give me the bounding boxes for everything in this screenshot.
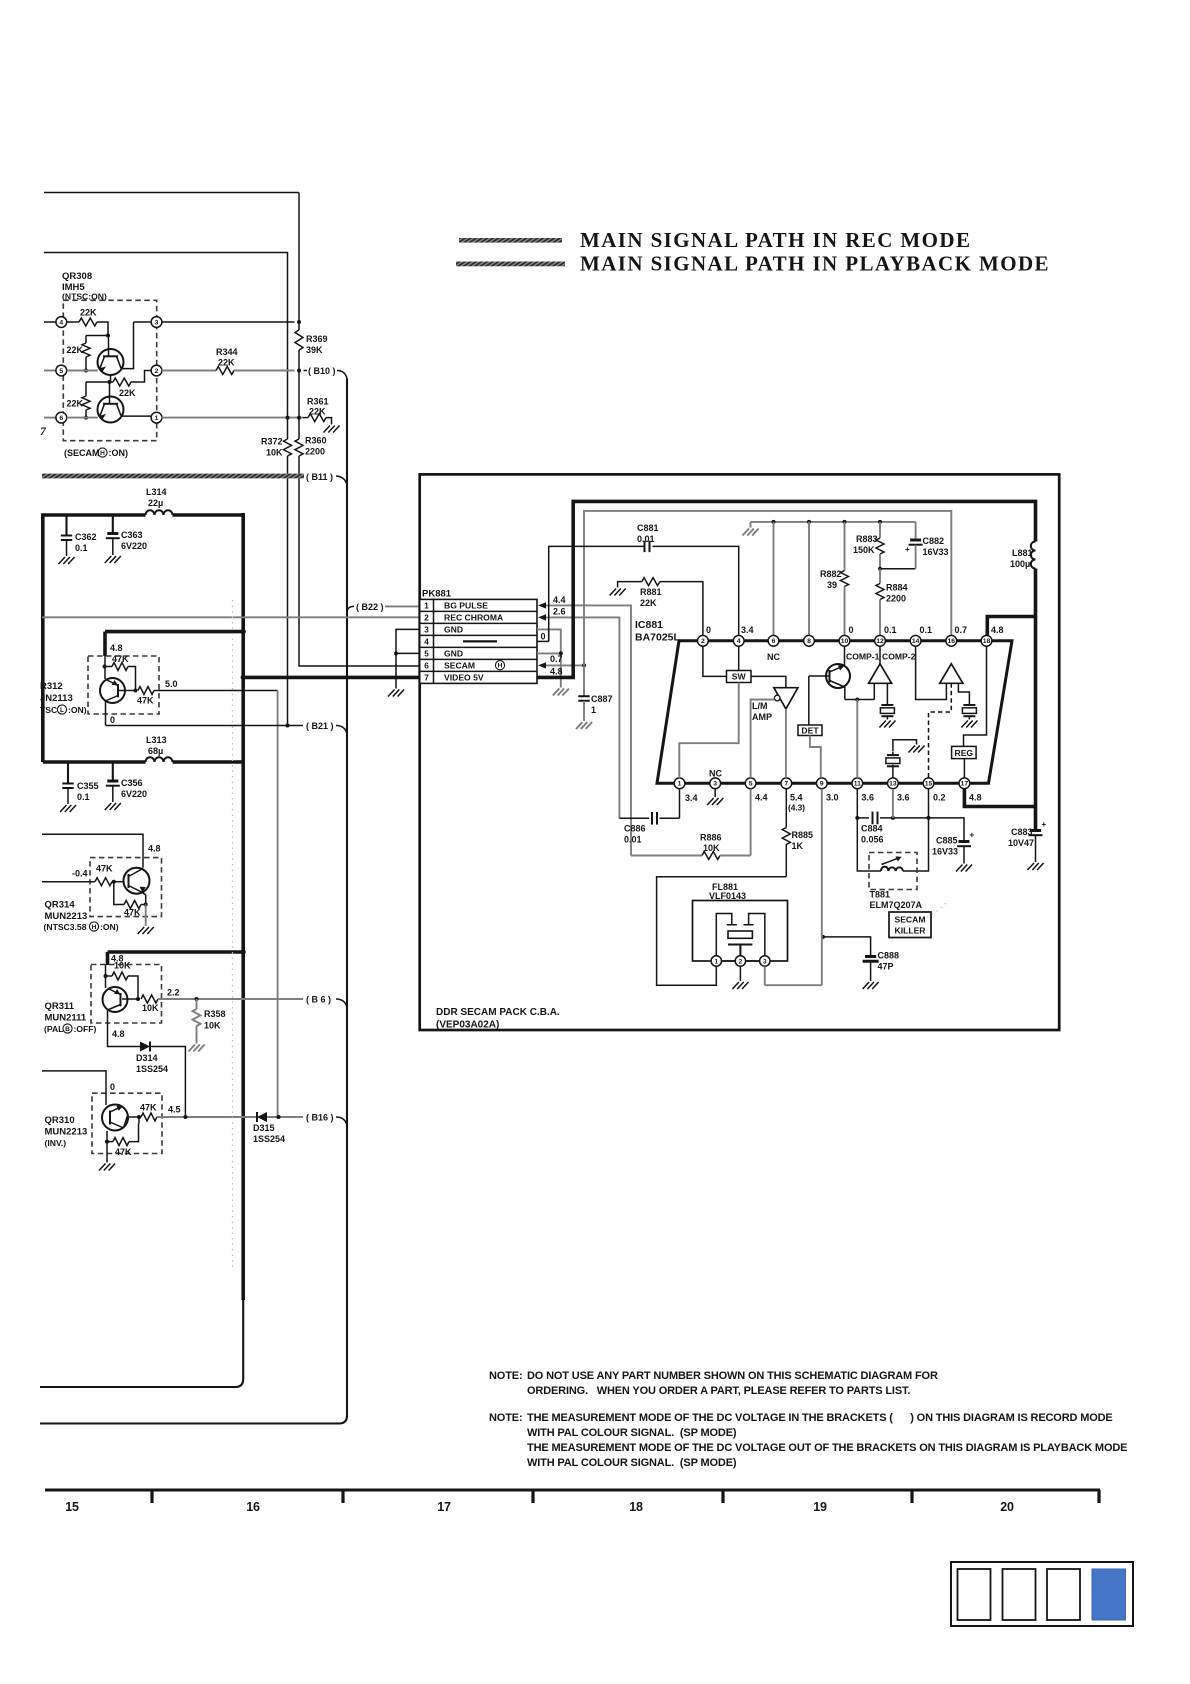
svg-text:GND: GND xyxy=(444,625,463,635)
pin 17 IC881 xyxy=(959,778,970,789)
svg-text:6: 6 xyxy=(424,662,429,671)
node pin3-R369 xyxy=(297,320,301,324)
wire QR314 emitter xyxy=(143,893,146,905)
value pin16 xyxy=(955,625,968,635)
op-amp COMP-1 xyxy=(869,646,892,683)
resistor R344 22K xyxy=(162,347,295,375)
svg-text:C886: C886 xyxy=(624,824,646,834)
svg-text:ELM7Q207A: ELM7Q207A xyxy=(870,900,923,910)
svg-text:D314: D314 xyxy=(136,1053,158,1063)
svg-text:39K: 39K xyxy=(306,345,323,355)
wire pin1 down xyxy=(679,789,681,819)
svg-text:ORDERING. WHEN YOU ORDER A P: ORDERING. WHEN YOU ORDER A PART, PLEASE … xyxy=(527,1385,910,1397)
wire bus B column x347 xyxy=(40,379,347,1424)
svg-text:L881: L881 xyxy=(1012,548,1033,558)
resistor 47K QR314 fb xyxy=(114,882,146,918)
svg-text:C363: C363 xyxy=(121,530,143,540)
pin 1 FL881 xyxy=(711,956,721,966)
svg-text:0.1: 0.1 xyxy=(75,543,88,553)
svg-text:4.8: 4.8 xyxy=(110,643,123,653)
svg-text:T881: T881 xyxy=(870,890,891,900)
capacitor C884 0.056 xyxy=(861,812,884,845)
wire pin4 to SW xyxy=(738,646,740,670)
ground R358 xyxy=(189,1045,205,1052)
pin 9 IC881 xyxy=(816,778,827,789)
transistor QR308a xyxy=(98,336,124,376)
value pin2 xyxy=(706,625,711,635)
nav square 1 xyxy=(958,1569,991,1620)
svg-text:13: 13 xyxy=(889,781,897,788)
capacitor C881 0.01 xyxy=(637,523,739,635)
resonator COMP-2 xyxy=(958,683,976,719)
svg-text:B: B xyxy=(65,1026,70,1033)
value pin13 xyxy=(897,793,910,803)
svg-text:2: 2 xyxy=(701,638,705,645)
svg-text:2200: 2200 xyxy=(305,447,325,457)
svg-text:7: 7 xyxy=(40,426,47,438)
svg-text:10K: 10K xyxy=(142,1003,159,1013)
note 2 line3 xyxy=(527,1442,1127,1454)
ground QR314 xyxy=(138,927,154,934)
wire row2 to C886 xyxy=(546,617,619,818)
svg-text:C356: C356 xyxy=(121,778,143,788)
value pin7 xyxy=(788,793,805,813)
ruler line xyxy=(45,1490,1100,1503)
svg-text:(NTSC3.58: (NTSC3.58 xyxy=(44,922,87,932)
wire pin11 riser xyxy=(856,700,858,778)
pin 2 IC881 xyxy=(698,635,709,646)
svg-text:1: 1 xyxy=(678,781,682,788)
pin 6 of QR308 box xyxy=(56,412,67,423)
wire dashed pin15 xyxy=(929,683,952,778)
ground C888 xyxy=(863,982,879,989)
node QR308 B xyxy=(84,369,88,373)
svg-text:5: 5 xyxy=(749,781,753,788)
label 2.6 row2 xyxy=(553,607,566,617)
svg-text:H: H xyxy=(498,663,503,670)
svg-text:100µ: 100µ xyxy=(1010,559,1030,569)
ground rail xyxy=(743,522,759,536)
block SECAM KILLER xyxy=(889,912,931,938)
wire C884 rail xyxy=(855,789,930,820)
dashed box QR308 xyxy=(63,300,156,440)
transistor internal IC881 xyxy=(809,664,850,688)
label 0.7 row6 xyxy=(550,654,563,664)
label 0 QR310 xyxy=(110,1082,115,1092)
svg-text:22µ: 22µ xyxy=(148,498,163,508)
svg-text:REC CHROMA: REC CHROMA xyxy=(444,613,503,623)
wire pin10 to transistor xyxy=(844,646,846,666)
wire QR311 out xyxy=(158,997,303,1001)
svg-text:20: 20 xyxy=(1000,1500,1014,1514)
resistor 22K lower-left xyxy=(67,382,91,418)
label 4.8 row7 xyxy=(550,667,563,677)
dashed box QR311 xyxy=(91,965,162,1024)
pin 16 IC881 xyxy=(946,635,957,646)
svg-text:0.1: 0.1 xyxy=(884,625,897,635)
wire D314 out xyxy=(150,1047,185,1118)
label 4.8 QR312 xyxy=(110,643,123,653)
wire FL881 pin2 gnd xyxy=(739,966,741,981)
label IMH5 xyxy=(62,282,85,293)
dashed box QR310 xyxy=(92,1093,162,1153)
op-amp L/M AMP xyxy=(752,688,798,722)
annotation curve xyxy=(927,902,947,917)
capacitor C886 0.01 xyxy=(619,812,679,845)
label VLF0143 xyxy=(709,891,746,901)
svg-text:4.8: 4.8 xyxy=(969,793,982,803)
svg-text:4: 4 xyxy=(737,638,741,645)
svg-text:5.0: 5.0 xyxy=(165,679,178,689)
svg-text:VIDEO 5V: VIDEO 5V xyxy=(444,673,484,683)
svg-text:( B21 ): ( B21 ) xyxy=(306,721,334,731)
resistor R884 2200 xyxy=(876,569,908,636)
svg-text:4.5: 4.5 xyxy=(168,1105,181,1115)
svg-text:16V33: 16V33 xyxy=(932,847,958,857)
diode D314 1SS254 xyxy=(136,1042,168,1075)
wire pin3 left xyxy=(134,321,152,323)
arrow row6 xyxy=(538,662,546,668)
pin 6 IC881 xyxy=(768,635,779,646)
hatched wire B11 xyxy=(42,474,304,479)
note 2 line2 xyxy=(527,1427,737,1439)
svg-text:(PAL: (PAL xyxy=(44,1024,63,1034)
wire COMP-1 legs xyxy=(845,683,875,701)
note 1 line1 xyxy=(489,1370,938,1382)
wire x299 vertical upper xyxy=(298,193,300,331)
svg-text:47K: 47K xyxy=(137,696,154,706)
op-amp IC881 outline xyxy=(657,641,1012,784)
svg-text:R881: R881 xyxy=(640,587,662,597)
label MUN2213 QR314 xyxy=(45,911,88,922)
svg-text:BA7025L: BA7025L xyxy=(635,632,681,644)
svg-text:COMP-2: COMP-2 xyxy=(882,652,916,662)
svg-text:6: 6 xyxy=(59,415,63,422)
pin 12 IC881 xyxy=(875,635,886,646)
wire DET to pin9 xyxy=(810,736,821,778)
label 5.0 xyxy=(165,679,178,689)
pin 3 of QR308 box xyxy=(151,317,162,328)
fold artifact dotted xyxy=(232,600,234,1270)
legend PLAYBACK mode line sample xyxy=(456,262,565,267)
ground PK881 right xyxy=(553,689,569,696)
svg-text:( B16 ): ( B16 ) xyxy=(306,1113,334,1123)
svg-text:WITH PAL COLOUR SIGNAL. (SP M: WITH PAL COLOUR SIGNAL. (SP MODE) xyxy=(527,1427,737,1439)
wire REC CHROMA line xyxy=(42,616,420,618)
svg-text:4.8: 4.8 xyxy=(148,844,161,854)
capacitor C362 xyxy=(61,515,97,556)
svg-text:47K: 47K xyxy=(140,1103,157,1113)
svg-text:TSC: TSC xyxy=(40,705,57,715)
svg-text:( B10 ): ( B10 ) xyxy=(308,366,336,376)
label 7 italic xyxy=(40,426,47,438)
wire pin5 down xyxy=(750,789,752,856)
wire secam riser xyxy=(584,511,951,666)
label 4.5 xyxy=(168,1105,181,1115)
svg-text:19: 19 xyxy=(813,1500,827,1514)
transformer T881 loop xyxy=(857,818,928,871)
wire REG to pin17 xyxy=(963,759,965,778)
svg-text:R369: R369 xyxy=(306,334,328,344)
svg-text:16: 16 xyxy=(948,638,956,645)
pin 4 IC881 xyxy=(733,635,744,646)
pin 1 of QR308 box xyxy=(151,412,162,423)
capacitor C887 xyxy=(578,665,612,721)
svg-text:0.01: 0.01 xyxy=(624,835,642,845)
svg-text:WITH PAL COLOUR SIGNAL. (SP M: WITH PAL COLOUR SIGNAL. (SP MODE) xyxy=(527,1457,737,1469)
svg-text:3: 3 xyxy=(763,958,767,965)
svg-text:(4.3): (4.3) xyxy=(788,803,805,813)
resonator COMP-1 xyxy=(880,683,894,719)
svg-text:47K: 47K xyxy=(112,654,129,664)
wire QR314 top feed xyxy=(42,834,143,868)
resistor R885 1K xyxy=(782,789,813,877)
svg-text:17: 17 xyxy=(961,781,969,788)
svg-text:+: + xyxy=(970,831,975,840)
svg-text:( B11 ): ( B11 ) xyxy=(306,472,333,482)
wire pin5 line xyxy=(67,370,98,372)
wire pin6 line xyxy=(67,417,98,419)
transistor QR314 xyxy=(124,868,150,894)
svg-text:R885: R885 xyxy=(792,830,814,840)
svg-text:C884: C884 xyxy=(861,824,883,834)
svg-text:22K: 22K xyxy=(119,388,136,398)
connector B22 xyxy=(347,602,420,613)
svg-text:47P: 47P xyxy=(878,962,894,972)
svg-text:H: H xyxy=(92,924,97,931)
pin 3 FL881 xyxy=(760,956,770,966)
svg-text:R344: R344 xyxy=(216,347,238,357)
nav square 2 xyxy=(1003,1569,1036,1620)
svg-text:14: 14 xyxy=(912,638,920,645)
label 4.8 QR311 xyxy=(111,954,124,964)
label R312 cut xyxy=(40,681,63,692)
pin 4 of QR308 box xyxy=(56,317,67,328)
svg-text:4.4: 4.4 xyxy=(755,793,768,803)
svg-text::ON): :ON) xyxy=(100,922,119,932)
transistor QR312 xyxy=(100,656,125,703)
svg-text:47K: 47K xyxy=(115,1147,132,1157)
svg-text:THE MEASUREMENT MODE OF THE DC: THE MEASUREMENT MODE OF THE DC VOLTAGE I… xyxy=(527,1412,1113,1424)
svg-text:+: + xyxy=(905,545,910,554)
svg-text:THE MEASUREMENT MODE OF THE DC: THE MEASUREMENT MODE OF THE DC VOLTAGE O… xyxy=(527,1442,1127,1454)
svg-text:0: 0 xyxy=(110,715,115,725)
wire 4.8 feed QR311 xyxy=(108,949,246,965)
transistor QR311 xyxy=(103,976,128,1012)
wire QR308a collector to pin3 line xyxy=(121,322,134,369)
connector B6 xyxy=(306,995,347,1008)
inductor L313 68u xyxy=(146,735,173,762)
wire thick L881 down xyxy=(987,569,1035,636)
filter FL881 internals xyxy=(716,914,765,956)
svg-text:2.2: 2.2 xyxy=(167,988,180,998)
node QR311 base xyxy=(122,997,140,1001)
dashed box QR312 xyxy=(88,656,159,714)
wire x277 vertical xyxy=(277,691,279,1118)
svg-text:MAIN SIGNAL PATH IN REC MODE: MAIN SIGNAL PATH IN REC MODE xyxy=(580,228,971,252)
label NC pin3 xyxy=(709,769,722,779)
node B10 junction xyxy=(297,369,301,373)
pin 1 IC881 xyxy=(674,778,685,789)
svg-text:0.1: 0.1 xyxy=(920,625,933,635)
svg-text:REG: REG xyxy=(954,748,973,758)
wire pin15 down xyxy=(928,789,930,818)
svg-text:4.8: 4.8 xyxy=(991,625,1004,635)
label IC881 xyxy=(635,619,663,631)
svg-text:DET: DET xyxy=(801,725,819,735)
svg-text:SW: SW xyxy=(732,672,747,682)
capacitor C883 10V47 xyxy=(1008,807,1047,863)
block DET xyxy=(798,676,822,736)
svg-text:PK881: PK881 xyxy=(422,589,452,600)
legend text PLAYBACK xyxy=(580,252,1050,276)
box FL881 xyxy=(693,901,788,962)
svg-text:JN2113: JN2113 xyxy=(40,693,73,704)
svg-text:0: 0 xyxy=(110,1082,115,1092)
svg-text:6: 6 xyxy=(772,638,776,645)
wire QR310 gnd xyxy=(106,1142,108,1163)
label QR308 xyxy=(62,271,92,282)
svg-text:10K: 10K xyxy=(266,448,283,458)
svg-text:( B22 ): ( B22 ) xyxy=(356,602,384,612)
svg-text:L313: L313 xyxy=(146,735,167,745)
svg-text:0: 0 xyxy=(541,632,546,642)
svg-text:18: 18 xyxy=(983,638,991,645)
wire QR311 emitter xyxy=(108,1010,141,1047)
legend text REC xyxy=(580,228,971,252)
label TSC L ON cut xyxy=(40,705,87,715)
capacitor C355 xyxy=(62,762,98,804)
svg-text:16V33: 16V33 xyxy=(923,547,949,557)
svg-text:10K: 10K xyxy=(703,843,720,853)
pin 2 FL881 xyxy=(735,956,745,966)
ground C887 xyxy=(576,722,592,729)
label VEP03A02A xyxy=(436,1020,499,1031)
wire pin8 riser xyxy=(808,522,810,636)
label -0.4 xyxy=(72,869,88,879)
wire pin9 riser xyxy=(765,789,822,985)
svg-text:22K: 22K xyxy=(80,308,97,318)
block SW xyxy=(727,671,752,683)
svg-text:10K: 10K xyxy=(114,961,131,971)
resistor 22K pin4 xyxy=(67,308,108,336)
ground FL881 xyxy=(732,982,748,989)
wire thick bus x243 xyxy=(40,513,243,1387)
wire SW in xyxy=(703,646,727,676)
capacitor C885 16V33 xyxy=(932,831,975,864)
value pin12 xyxy=(884,625,897,635)
label DDR SECAM PACK xyxy=(436,1007,560,1018)
value pin15 xyxy=(933,793,946,803)
box DDR SECAM PACK xyxy=(420,474,1059,1030)
note 2 line1 xyxy=(489,1412,1113,1424)
svg-text:AMP: AMP xyxy=(752,712,772,722)
svg-text:4.4: 4.4 xyxy=(553,595,566,605)
svg-text:SECAM: SECAM xyxy=(894,915,925,925)
connector PK881 xyxy=(420,599,537,683)
value pin17 xyxy=(969,793,982,803)
svg-text:H: H xyxy=(100,450,105,457)
svg-text:22K: 22K xyxy=(67,399,84,409)
svg-text:R360: R360 xyxy=(305,436,327,446)
svg-text:3.4: 3.4 xyxy=(741,625,754,635)
svg-text:0.7: 0.7 xyxy=(955,625,968,635)
wire QR308b to pin1 xyxy=(121,415,152,417)
svg-text:QR308: QR308 xyxy=(62,271,92,282)
svg-text:5: 5 xyxy=(424,650,429,659)
wire pin17 thick out xyxy=(964,789,1035,807)
svg-text::OFF): :OFF) xyxy=(74,1024,97,1034)
svg-text:47K: 47K xyxy=(96,864,113,874)
value pin18 xyxy=(991,625,1004,635)
wire row7 thick left xyxy=(241,675,420,680)
ground C362 xyxy=(59,557,75,564)
pin 5 IC881 xyxy=(745,778,756,789)
svg-text:QR314: QR314 xyxy=(45,900,76,911)
capacitor C356 electrolytic xyxy=(106,762,147,802)
svg-text:(INV.): (INV.) xyxy=(45,1138,67,1148)
wire QR314 input xyxy=(42,881,95,883)
svg-text:1: 1 xyxy=(155,415,159,422)
block REG xyxy=(952,646,987,758)
connector B21 xyxy=(306,721,347,734)
pin 2 of QR308 box xyxy=(151,365,162,376)
node pin1-x299 xyxy=(297,416,301,420)
svg-text:C888: C888 xyxy=(878,951,900,961)
svg-text:C362: C362 xyxy=(75,532,97,542)
label MUN2213 QR310 xyxy=(45,1127,88,1138)
svg-text:0.2: 0.2 xyxy=(933,793,946,803)
svg-text:C355: C355 xyxy=(77,781,99,791)
svg-text:12: 12 xyxy=(876,638,884,645)
svg-text:0.1: 0.1 xyxy=(77,792,90,802)
wire C888 branch xyxy=(821,935,871,955)
pin 8 IC881 xyxy=(804,635,815,646)
wire QR312 out xyxy=(154,690,278,692)
svg-text:VLF0143: VLF0143 xyxy=(709,891,746,901)
svg-text:2: 2 xyxy=(424,614,429,623)
wire SW to pin1 xyxy=(679,683,738,778)
wire QR310 out line xyxy=(157,1115,256,1119)
svg-text:C885: C885 xyxy=(936,836,958,846)
label QR314 xyxy=(45,900,76,911)
value pin14 xyxy=(920,625,933,635)
wire pin6 riser xyxy=(773,522,775,636)
svg-text:8: 8 xyxy=(807,638,811,645)
label INV xyxy=(45,1138,67,1148)
svg-text:68µ: 68µ xyxy=(148,746,163,756)
resistor R369 39K xyxy=(295,330,328,355)
svg-text:COMP-1: COMP-1 xyxy=(846,652,880,662)
label 4.4 row1 xyxy=(553,595,566,605)
svg-text:MUN2213: MUN2213 xyxy=(45,1127,88,1138)
svg-text:1K: 1K xyxy=(792,841,804,851)
svg-text:1: 1 xyxy=(591,705,596,715)
dashed box T881 xyxy=(869,853,917,890)
box 0 row4 xyxy=(537,629,549,641)
ground C363 xyxy=(105,556,121,563)
nav square 4 active xyxy=(1092,1569,1126,1620)
resistor 47K QR312 top xyxy=(103,654,136,691)
svg-text:3: 3 xyxy=(155,319,159,326)
resistor 22K mid xyxy=(110,371,152,399)
connector B10 xyxy=(304,366,348,379)
svg-text:SECAM: SECAM xyxy=(444,661,475,671)
label BA7025L xyxy=(635,632,681,644)
resistor 47K QR310 fb xyxy=(105,1117,139,1157)
svg-text:4.8: 4.8 xyxy=(550,667,563,677)
transistor QR308b xyxy=(98,382,124,423)
